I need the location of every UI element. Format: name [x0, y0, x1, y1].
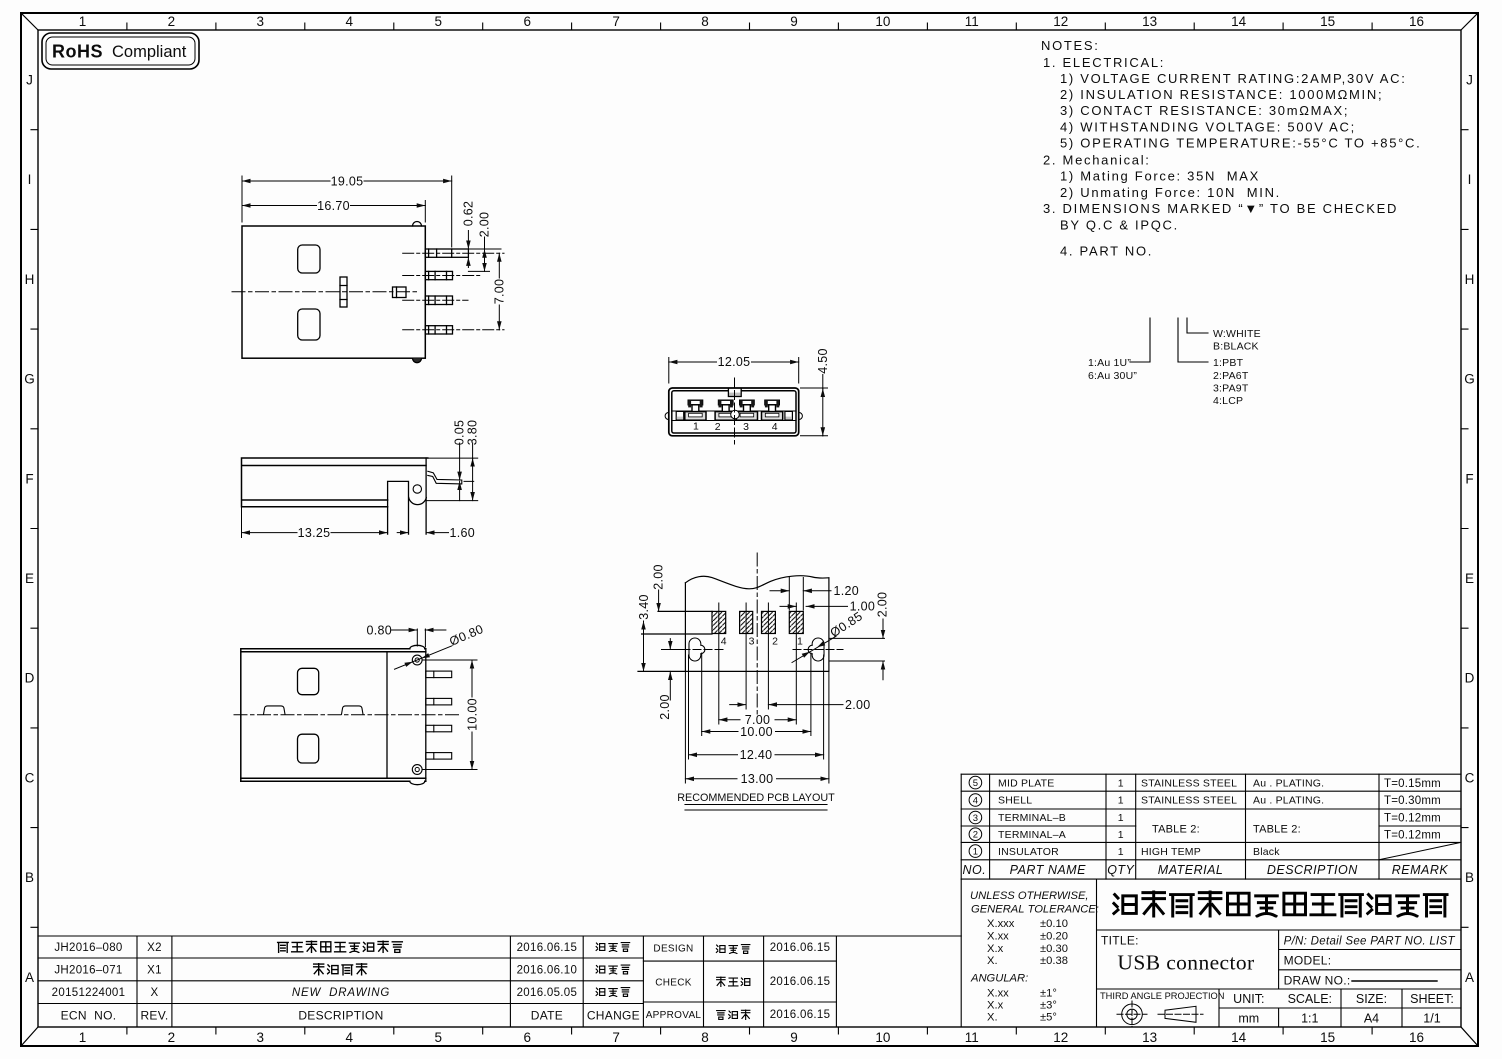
- svg-text:10: 10: [875, 1030, 890, 1045]
- svg-text:1: 1: [1118, 846, 1124, 858]
- svg-text:SHELL: SHELL: [998, 795, 1032, 807]
- svg-text:1: 1: [1118, 795, 1124, 807]
- svg-text:Ø0.80: Ø0.80: [447, 622, 485, 649]
- svg-text:UNLESS OTHERWISE,: UNLESS OTHERWISE,: [970, 890, 1089, 902]
- svg-text:TERMINAL–A: TERMINAL–A: [998, 829, 1066, 841]
- svg-text:2.00: 2.00: [652, 564, 666, 590]
- svg-text:DATE: DATE: [531, 1009, 563, 1023]
- svg-text:DRAW NO.:: DRAW NO.:: [1284, 974, 1351, 988]
- svg-text:1: 1: [79, 1030, 87, 1045]
- svg-text:T=0.30mm: T=0.30mm: [1384, 795, 1441, 807]
- svg-text:THIRD ANGLE PROJECTION: THIRD ANGLE PROJECTION: [1100, 991, 1225, 1001]
- svg-text:6:Au 30U”: 6:Au 30U”: [1088, 370, 1137, 382]
- svg-text:4: 4: [721, 636, 727, 648]
- svg-text:HIGH TEMP: HIGH TEMP: [1141, 846, 1201, 858]
- svg-text:2: 2: [772, 636, 778, 648]
- svg-text:20151224001: 20151224001: [52, 987, 126, 999]
- svg-text:Au . PLATING.: Au . PLATING.: [1253, 795, 1324, 807]
- svg-text:X.x: X.x: [987, 999, 1004, 1011]
- svg-text:1: 1: [973, 847, 978, 858]
- svg-text:RoHS: RoHS: [52, 42, 103, 62]
- svg-text:2:PA6T: 2:PA6T: [1213, 370, 1249, 382]
- svg-text:3: 3: [257, 1030, 265, 1045]
- svg-text:G: G: [1464, 372, 1475, 387]
- svg-text:1) VOLTAGE CURRENT RATING:2AMP: 1) VOLTAGE CURRENT RATING:2AMP,30V AC:: [1060, 71, 1407, 86]
- svg-text:11: 11: [965, 1030, 979, 1045]
- svg-text:16: 16: [1409, 14, 1424, 29]
- svg-text:JH2016–071: JH2016–071: [54, 965, 122, 977]
- svg-text:Compliant: Compliant: [112, 43, 187, 61]
- svg-text:4: 4: [973, 795, 978, 806]
- svg-text:1. ELECTRICAL:: 1. ELECTRICAL:: [1043, 55, 1165, 70]
- svg-text:12.05: 12.05: [718, 355, 751, 369]
- svg-text:NO.: NO.: [963, 863, 987, 877]
- svg-text:2016.06.15: 2016.06.15: [770, 942, 831, 954]
- svg-text:4:LCP: 4:LCP: [1213, 395, 1243, 407]
- svg-text:12.40: 12.40: [740, 748, 773, 762]
- svg-text:2016.06.15: 2016.06.15: [770, 976, 831, 988]
- svg-text:2: 2: [168, 1030, 176, 1045]
- svg-text:REV.: REV.: [140, 1009, 168, 1023]
- svg-text:MODEL:: MODEL:: [1284, 954, 1332, 968]
- svg-text:C: C: [1465, 770, 1475, 785]
- svg-text:TITLE:: TITLE:: [1101, 934, 1139, 948]
- svg-text:3) CONTACT RESISTANCE: 30mΩMAX: 3) CONTACT RESISTANCE: 30mΩMAX;: [1060, 103, 1349, 118]
- svg-text:H: H: [25, 272, 35, 287]
- svg-text:3: 3: [973, 813, 978, 824]
- svg-text:3: 3: [257, 14, 265, 29]
- svg-text:15: 15: [1320, 1030, 1335, 1045]
- svg-text:BY Q.C & IPQC.: BY Q.C & IPQC.: [1060, 217, 1179, 232]
- svg-text:8: 8: [701, 14, 709, 29]
- svg-text:1: 1: [1118, 777, 1124, 789]
- svg-text:2.00: 2.00: [845, 698, 871, 712]
- svg-text:3:PA9T: 3:PA9T: [1213, 382, 1249, 394]
- svg-text:2.00: 2.00: [876, 592, 890, 618]
- svg-text:13: 13: [1142, 1030, 1157, 1045]
- svg-text:2) Unmating Force: 10N MIN.: 2) Unmating Force: 10N MIN.: [1060, 185, 1281, 200]
- svg-text:X.: X.: [987, 955, 998, 967]
- svg-text:14: 14: [1231, 1030, 1247, 1045]
- svg-text:1: 1: [797, 636, 803, 648]
- svg-text:10.00: 10.00: [740, 725, 773, 739]
- svg-text:4: 4: [346, 1030, 354, 1045]
- svg-text:mm: mm: [1238, 1012, 1259, 1026]
- svg-text:3: 3: [743, 421, 749, 433]
- svg-text:X.xx: X.xx: [987, 931, 1009, 943]
- svg-text:9: 9: [790, 1030, 798, 1045]
- svg-text:7: 7: [612, 14, 620, 29]
- svg-text:CHANGE: CHANGE: [587, 1009, 640, 1023]
- svg-text:4: 4: [346, 14, 354, 29]
- svg-text:14: 14: [1231, 14, 1247, 29]
- svg-text:TABLE 2:: TABLE 2:: [1253, 824, 1301, 836]
- svg-text:D: D: [1465, 671, 1475, 686]
- svg-text:10: 10: [875, 14, 890, 29]
- svg-text:±1°: ±1°: [1040, 987, 1057, 999]
- svg-text:9: 9: [790, 14, 798, 29]
- svg-text:16.70: 16.70: [317, 199, 350, 213]
- svg-text:STAINLESS STEEL: STAINLESS STEEL: [1141, 795, 1237, 807]
- svg-text:B: B: [25, 870, 34, 885]
- svg-text:TERMINAL–B: TERMINAL–B: [998, 812, 1066, 824]
- svg-text:2016.05.05: 2016.05.05: [517, 987, 578, 999]
- svg-text:DESCRIPTION: DESCRIPTION: [1267, 863, 1358, 877]
- svg-text:I: I: [28, 172, 32, 187]
- svg-text:G: G: [24, 372, 35, 387]
- svg-text:INSULATOR: INSULATOR: [998, 846, 1059, 858]
- svg-text:J: J: [1466, 73, 1473, 88]
- svg-text:D: D: [25, 671, 35, 686]
- svg-text:±0.10: ±0.10: [1040, 918, 1068, 930]
- svg-text:1: 1: [1118, 812, 1124, 824]
- svg-text:2.00: 2.00: [478, 212, 492, 238]
- svg-text:3. DIMENSIONS MARKED “▼” TO BE: 3. DIMENSIONS MARKED “▼” TO BE CHECKED: [1043, 201, 1398, 216]
- svg-text:STAINLESS STEEL: STAINLESS STEEL: [1141, 777, 1237, 789]
- svg-text:T=0.15mm: T=0.15mm: [1384, 778, 1441, 790]
- svg-text:PART NAME: PART NAME: [1010, 863, 1086, 877]
- svg-text:4) WITHSTANDING VOLTAGE: 500V: 4) WITHSTANDING VOLTAGE: 500V AC;: [1060, 119, 1356, 134]
- svg-text:DESIGN: DESIGN: [653, 944, 693, 955]
- svg-text:5: 5: [973, 778, 978, 789]
- svg-text:CHECK: CHECK: [655, 978, 692, 989]
- svg-text:X: X: [151, 987, 159, 999]
- svg-text:7.00: 7.00: [493, 279, 507, 305]
- svg-text:P/N: Detail See PART NO. LIST: P/N: Detail See PART NO. LIST: [1284, 936, 1456, 948]
- svg-text:0.05: 0.05: [453, 420, 467, 446]
- svg-text:0.80: 0.80: [366, 623, 392, 637]
- svg-text:2: 2: [715, 421, 721, 433]
- svg-text:X.: X.: [987, 1011, 998, 1023]
- svg-text:QTY: QTY: [1107, 863, 1135, 877]
- svg-text:2) INSULATION RESISTANCE: 1000: 2) INSULATION RESISTANCE: 1000MΩMIN;: [1060, 87, 1383, 102]
- svg-text:2.00: 2.00: [658, 694, 672, 720]
- svg-text:DESCRIPTION: DESCRIPTION: [298, 1009, 383, 1023]
- svg-text:12: 12: [1053, 1030, 1068, 1045]
- svg-text:±3°: ±3°: [1040, 999, 1057, 1011]
- svg-text:X1: X1: [147, 965, 162, 977]
- svg-text:11: 11: [965, 14, 979, 29]
- svg-text:3.40: 3.40: [637, 594, 651, 620]
- svg-text:4. PART NO.: 4. PART NO.: [1060, 243, 1153, 258]
- svg-text:2. Mechanical:: 2. Mechanical:: [1043, 152, 1151, 167]
- svg-text:2016.06.15: 2016.06.15: [517, 942, 578, 954]
- svg-text:X2: X2: [147, 942, 162, 954]
- svg-text:A: A: [1465, 970, 1474, 985]
- svg-text:3.80: 3.80: [466, 420, 480, 446]
- svg-text:2016.06.10: 2016.06.10: [517, 965, 578, 977]
- svg-text:REMARK: REMARK: [1392, 863, 1449, 877]
- svg-text:Ø0.85: Ø0.85: [828, 609, 865, 640]
- svg-text:X.xx: X.xx: [987, 987, 1009, 999]
- svg-text:USB connector: USB connector: [1117, 951, 1254, 975]
- svg-text:5) OPERATING TEMPERATURE:-55°C: 5) OPERATING TEMPERATURE:-55°C TO +85°C.: [1060, 136, 1421, 151]
- svg-text:E: E: [1465, 571, 1474, 586]
- svg-text:4: 4: [772, 421, 778, 433]
- svg-text:T=0.12mm: T=0.12mm: [1384, 829, 1441, 841]
- svg-text:RECOMMENDED PCB LAYOUT: RECOMMENDED PCB LAYOUT: [677, 792, 835, 804]
- svg-text:4.50: 4.50: [816, 348, 830, 374]
- svg-text:A4: A4: [1364, 1012, 1379, 1026]
- svg-text:12: 12: [1053, 14, 1068, 29]
- svg-text:1: 1: [693, 420, 699, 432]
- svg-text:B: B: [1465, 870, 1474, 885]
- svg-text:13: 13: [1142, 14, 1157, 29]
- svg-text:8: 8: [701, 1030, 709, 1045]
- svg-text:F: F: [1465, 471, 1473, 486]
- svg-text:T=0.12mm: T=0.12mm: [1384, 813, 1441, 825]
- svg-text:1:Au 1U”: 1:Au 1U”: [1088, 357, 1131, 369]
- svg-text:7: 7: [612, 1030, 620, 1045]
- svg-text:UNIT:: UNIT:: [1233, 992, 1264, 1006]
- svg-text:5: 5: [434, 14, 442, 29]
- svg-text:Au . PLATING.: Au . PLATING.: [1253, 777, 1324, 789]
- svg-text:B:BLACK: B:BLACK: [1213, 340, 1259, 352]
- svg-text:2: 2: [168, 14, 176, 29]
- svg-text:I: I: [1468, 172, 1472, 187]
- svg-text:0.62: 0.62: [462, 201, 476, 227]
- svg-text:F: F: [25, 471, 33, 486]
- svg-text:19.05: 19.05: [331, 174, 364, 188]
- svg-text:15: 15: [1320, 14, 1335, 29]
- svg-text:1/1: 1/1: [1423, 1012, 1440, 1026]
- svg-text:16: 16: [1409, 1030, 1424, 1045]
- svg-text:±0.30: ±0.30: [1040, 943, 1068, 955]
- svg-text:A: A: [25, 970, 34, 985]
- svg-text:J: J: [26, 73, 33, 88]
- svg-text:13.25: 13.25: [298, 526, 331, 540]
- svg-text:±0.20: ±0.20: [1040, 931, 1068, 943]
- svg-text:MATERIAL: MATERIAL: [1158, 863, 1224, 877]
- svg-text:6: 6: [523, 1030, 531, 1045]
- svg-text:1: 1: [1118, 829, 1124, 841]
- svg-text:JH2016–080: JH2016–080: [54, 942, 122, 954]
- svg-text:GENERAL TOLERANCE:: GENERAL TOLERANCE:: [971, 904, 1099, 916]
- svg-text:1.60: 1.60: [450, 526, 476, 540]
- svg-text:5: 5: [434, 1030, 442, 1045]
- svg-text:NOTES:: NOTES:: [1041, 38, 1100, 53]
- svg-text:APPROVAL: APPROVAL: [646, 1010, 702, 1021]
- svg-text:E: E: [25, 571, 34, 586]
- svg-text:NEW DRAWING: NEW DRAWING: [292, 987, 390, 999]
- svg-text:H: H: [1465, 272, 1475, 287]
- svg-text:±0.38: ±0.38: [1040, 955, 1068, 967]
- svg-text:13.00: 13.00: [741, 772, 774, 786]
- svg-text:1: 1: [79, 14, 87, 29]
- svg-text:±5°: ±5°: [1040, 1011, 1057, 1023]
- svg-text:X.x: X.x: [987, 943, 1004, 955]
- svg-text:SCALE:: SCALE:: [1288, 992, 1332, 1006]
- svg-text:2016.06.15: 2016.06.15: [770, 1009, 831, 1021]
- svg-text:SIZE:: SIZE:: [1356, 992, 1387, 1006]
- svg-text:X.xxx: X.xxx: [987, 918, 1015, 930]
- svg-text:ANGULAR:: ANGULAR:: [970, 973, 1028, 985]
- svg-text:1.20: 1.20: [834, 584, 860, 598]
- svg-text:SHEET:: SHEET:: [1410, 992, 1454, 1006]
- svg-text:2: 2: [973, 830, 978, 841]
- svg-text:Black: Black: [1253, 846, 1280, 858]
- svg-text:6: 6: [523, 14, 531, 29]
- svg-text:1:PBT: 1:PBT: [1213, 357, 1244, 369]
- svg-text:W:WHITE: W:WHITE: [1213, 328, 1261, 340]
- svg-text:1) Mating Force: 35N MAX: 1) Mating Force: 35N MAX: [1060, 169, 1260, 184]
- svg-text:C: C: [25, 770, 35, 785]
- svg-text:TABLE 2:: TABLE 2:: [1152, 824, 1200, 836]
- svg-text:ECN NO.: ECN NO.: [61, 1009, 117, 1023]
- svg-text:1:1: 1:1: [1301, 1012, 1318, 1026]
- svg-text:10.00: 10.00: [465, 698, 479, 731]
- svg-text:MID PLATE: MID PLATE: [998, 777, 1054, 789]
- svg-text:3: 3: [749, 636, 755, 648]
